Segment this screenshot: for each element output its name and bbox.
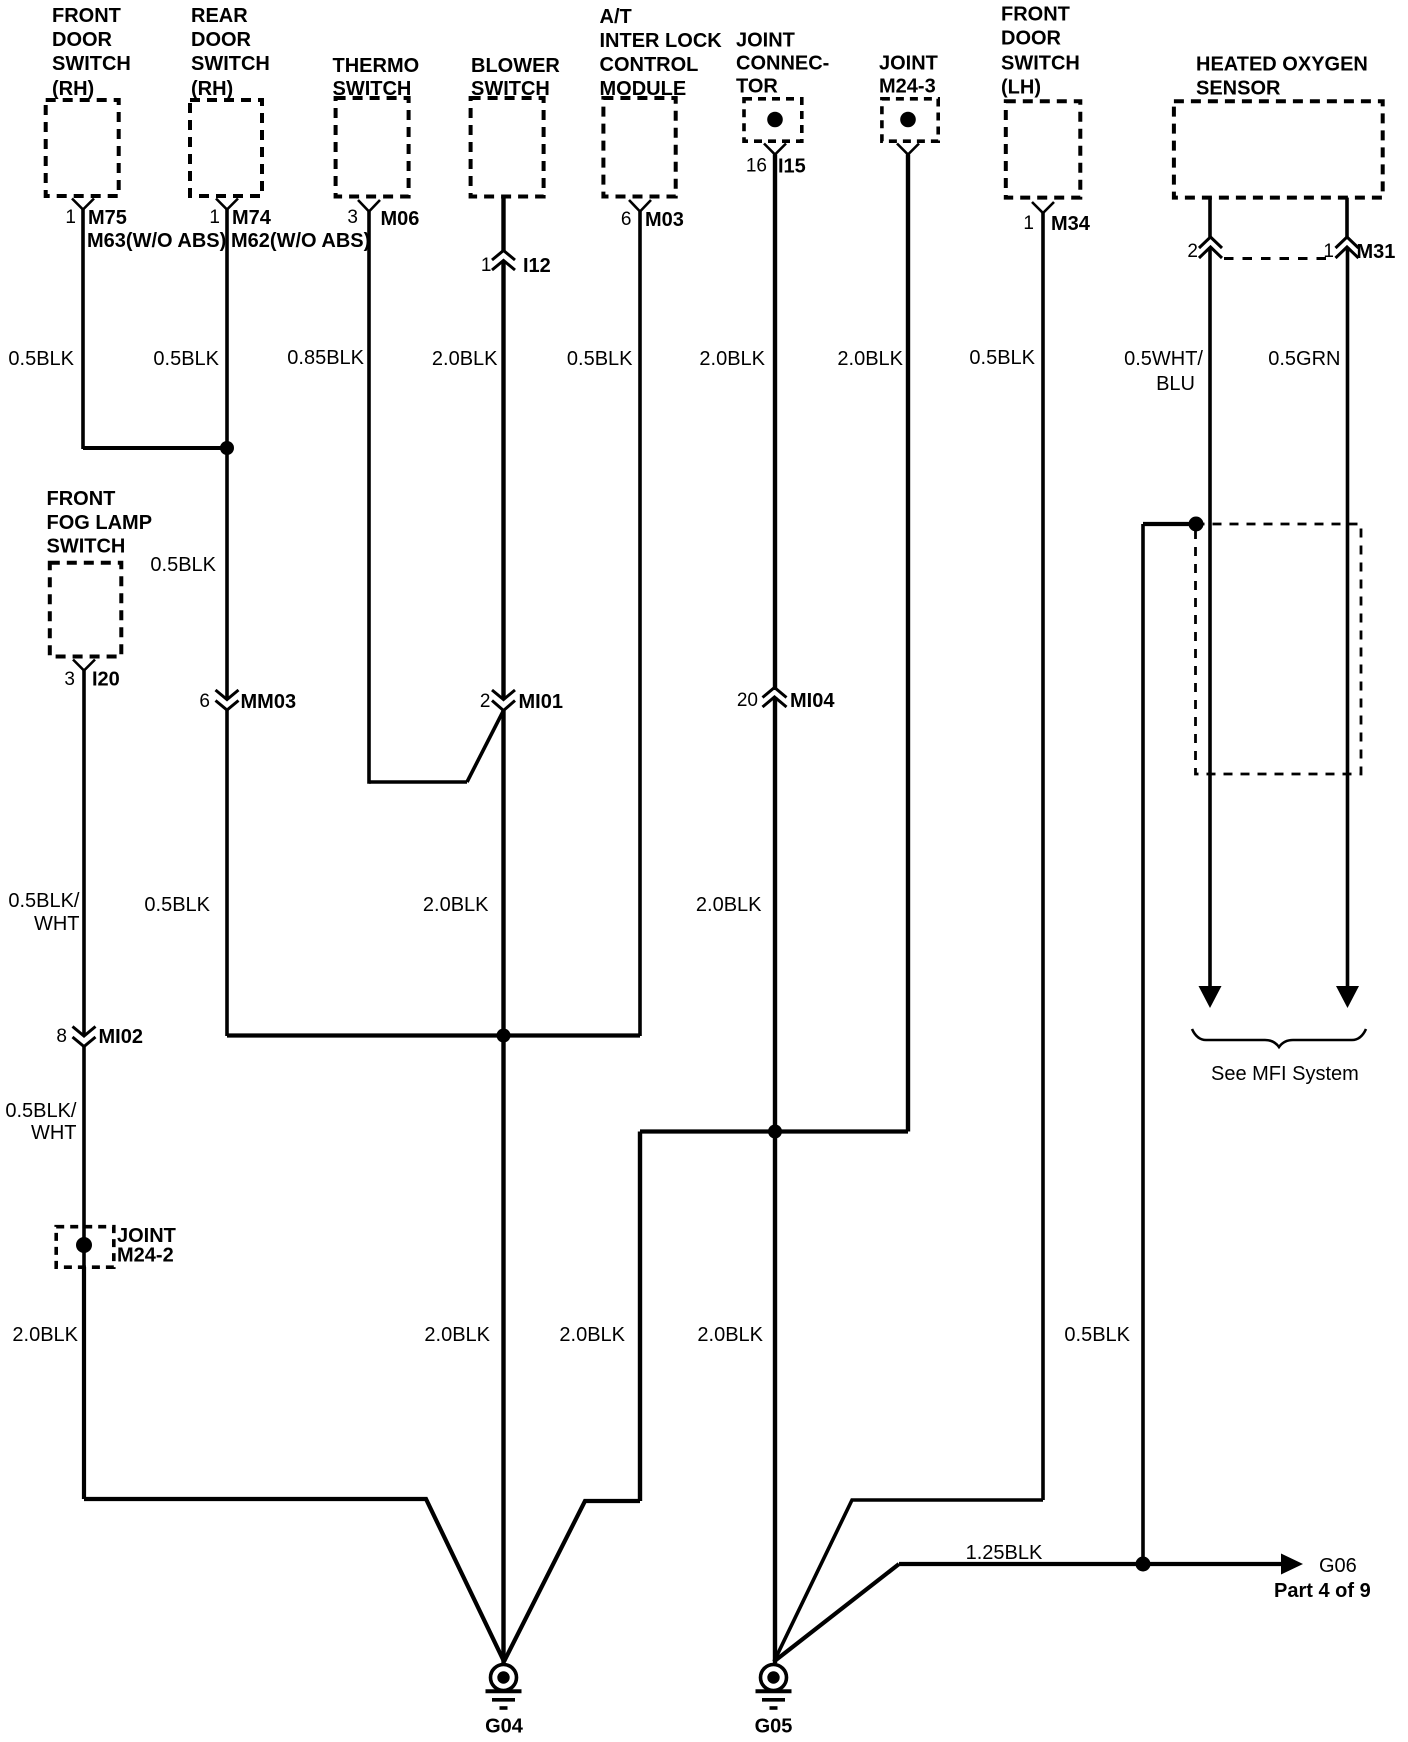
svg-text:MM03: MM03 [241,691,297,713]
brace see MFI system [1192,1029,1366,1047]
wire thermo horizontal jog [369,780,467,784]
svg-text:THERMO: THERMO [333,55,420,77]
svg-text:Part 4 of 9: Part 4 of 9 [1274,1580,1371,1602]
svg-text:FRONT: FRONT [1001,4,1070,26]
connector MI01 pin 2 [480,690,563,713]
wire horizontal y=1132 [640,1129,908,1133]
joint M24-3 title [879,53,938,98]
svg-text:M34: M34 [1051,213,1091,235]
svg-text:JOINT: JOINT [736,30,795,52]
connector MI04 pin 20 [737,688,835,713]
svg-text:BLOWER: BLOWER [471,55,560,77]
front fog lamp switch title [47,488,153,558]
junction dot blower at bus [497,1029,511,1043]
svg-text:FOG LAMP: FOG LAMP [47,512,153,534]
svg-text:(RH): (RH) [52,78,94,100]
ground G04 [485,1665,524,1738]
A/T module box [603,98,675,197]
arrow down right HO2S [1336,986,1359,1008]
arrow to G06 [1281,1554,1303,1575]
svg-text:2: 2 [1187,241,1198,262]
svg-text:SWITCH: SWITCH [191,53,270,75]
svg-text:M24-2: M24-2 [117,1245,174,1267]
connector symbol under M24-3 [897,144,919,155]
svg-text:0.5BLK/: 0.5BLK/ [8,890,80,912]
svg-text:0.5BLK: 0.5BLK [969,347,1035,369]
svg-text:1: 1 [1023,213,1034,234]
svg-text:0.5BLK: 0.5BLK [153,348,219,370]
svg-text:6: 6 [199,691,210,712]
wire joint M24-3 2.0BLK [906,155,910,1132]
svg-text:0.5BLK/: 0.5BLK/ [5,1100,77,1122]
joint M24-3 dot [900,112,916,128]
svg-text:CONTROL: CONTROL [600,54,699,76]
svg-text:BLU: BLU [1156,373,1195,395]
svg-text:CONNEC-: CONNEC- [736,53,829,75]
thermo switch box [336,98,409,197]
wire fog lamp 0.5BLK/WHT lower [82,1047,86,1268]
svg-text:2.0BLK: 2.0BLK [559,1324,625,1346]
connector M31 pin 2 [1187,237,1222,262]
connector MI02 pin 8 [56,1026,143,1048]
thermo switch title [333,55,420,100]
wire fog lamp 2.0BLK below joint M24-2 [82,1267,86,1499]
svg-text:A/T: A/T [600,6,632,28]
svg-text:M06: M06 [381,208,420,230]
junction dot 0.5BLK at 1.25BLK [1136,1557,1151,1572]
connector M31 pin 1 [1323,237,1395,263]
svg-text:G06: G06 [1319,1555,1357,1577]
svg-text:(RH): (RH) [191,78,233,100]
wire blower lower 2.0BLK to ground [501,711,505,1664]
svg-text:M63(W/O ABS): M63(W/O ABS) [87,230,226,252]
svg-text:2.0BLK: 2.0BLK [432,348,498,370]
svg-text:1: 1 [481,255,492,276]
wire jog into G04 right [504,1501,640,1662]
joint connector dot [767,112,783,128]
svg-text:M24-3: M24-3 [879,76,936,98]
svg-text:JOINT: JOINT [879,53,938,75]
svg-text:16: 16 [746,156,767,177]
svg-text:MI01: MI01 [519,691,563,713]
svg-text:MI04: MI04 [790,690,835,712]
svg-text:SWITCH: SWITCH [47,536,126,558]
svg-text:SENSOR: SENSOR [1196,78,1281,100]
svg-text:I15: I15 [778,156,806,178]
svg-text:FRONT: FRONT [47,488,116,510]
diagonal 1.25BLK into G05 [774,1564,899,1662]
wire HO2S left upper [1208,198,1212,237]
svg-text:FRONT: FRONT [52,5,121,27]
svg-text:WHT: WHT [34,913,80,935]
wire rear door switch 0.5BLK lower [225,710,229,1036]
rear door switch (RH) box [190,100,262,196]
wire joint connector lower to G05 [773,697,777,1663]
svg-text:G05: G05 [755,1716,793,1738]
wire HO2S right upper [1345,198,1349,237]
wire front door LH 0.5BLK [1041,213,1045,1500]
connector M74 pin 1 symbol [209,199,370,253]
svg-text:G04: G04 [485,1716,524,1738]
1.25BLK wire to G06 [899,1562,1284,1566]
connector M06 pin 3 [347,200,419,230]
svg-text:3: 3 [64,669,75,690]
dashed box below HO2S [1196,524,1362,774]
svg-text:I20: I20 [92,669,120,691]
svg-text:6: 6 [621,209,632,230]
svg-text:0.5BLK: 0.5BLK [1064,1324,1130,1346]
wire front door switch RH 0.5BLK [81,210,85,450]
joint connector title [736,30,829,98]
svg-text:I12: I12 [523,255,551,277]
svg-text:2.0BLK: 2.0BLK [697,1324,763,1346]
svg-text:3: 3 [347,207,358,228]
svg-text:0.5BLK: 0.5BLK [150,554,216,576]
svg-text:0.5BLK: 0.5BLK [144,894,210,916]
blower switch title [471,55,560,100]
connector I12 pin 1 [481,251,551,278]
front door switch (LH) box [1006,101,1081,197]
front door switch (RH) box [46,100,119,196]
svg-text:8: 8 [56,1026,67,1047]
wire horizontal bus y=1036 [227,1033,640,1037]
svg-text:0.5GRN: 0.5GRN [1268,348,1340,370]
joint M24-3 box [882,99,938,141]
front door switch (RH) title [52,5,131,100]
svg-text:M03: M03 [645,209,684,231]
wire thermo switch 0.85BLK [367,212,371,784]
svg-text:1: 1 [209,207,220,228]
wire thermo diagonal to MI01 [467,711,504,783]
svg-text:0.5BLK: 0.5BLK [8,348,74,370]
wire A/T 0.5BLK [638,212,642,1037]
blower switch box [471,98,544,197]
svg-text:M62(W/O ABS): M62(W/O ABS) [231,230,370,252]
dashed link between M31 pins [1224,257,1331,260]
connector MM03 pin 6 [199,690,296,713]
joint M24-2 box [56,1227,114,1268]
svg-text:TOR: TOR [736,76,778,98]
svg-text:REAR: REAR [191,5,248,27]
wire rear door switch 0.5BLK upper [225,210,229,700]
wire 0.5BLK branch vertical [1141,524,1145,1564]
svg-text:2.0BLK: 2.0BLK [837,348,903,370]
wire horizontal to rear door wire [83,446,227,450]
arrow down left HO2S [1199,986,1222,1008]
svg-text:WHT: WHT [31,1122,77,1144]
ground G05 [755,1665,793,1738]
svg-text:SWITCH: SWITCH [52,53,131,75]
wire HO2S left 0.5WHT/BLU [1208,247,1212,990]
front door switch (LH) title [1001,4,1080,99]
wire HO2S right 0.5GRN [1346,247,1350,990]
wire fog lamp 0.5BLK/WHT upper [82,671,86,1037]
A/T inter lock control module title [600,6,723,100]
svg-text:0.5BLK: 0.5BLK [567,348,633,370]
svg-text:2.0BLK: 2.0BLK [423,894,489,916]
svg-text:HEATED OXYGEN: HEATED OXYGEN [1196,54,1368,76]
connector M75 pin 1 symbol [65,199,226,253]
joint M24-2 title [117,1225,176,1267]
wire blower 2.0BLK [501,261,505,700]
svg-text:2.0BLK: 2.0BLK [699,348,765,370]
wire blower to I12 [501,197,505,251]
wire 0.5BLK branch horizontal [1143,522,1196,526]
svg-text:SWITCH: SWITCH [1001,53,1080,75]
joint connector box [744,99,802,141]
svg-text:0.5WHT/: 0.5WHT/ [1124,348,1203,370]
svg-text:2.0BLK: 2.0BLK [696,894,762,916]
svg-text:1: 1 [65,207,76,228]
svg-text:DOOR: DOOR [191,29,252,51]
svg-text:MI02: MI02 [99,1026,143,1048]
connector M03 pin 6 [621,200,684,231]
svg-text:(LH): (LH) [1001,77,1041,99]
heated oxygen sensor box [1174,101,1383,197]
svg-text:M31: M31 [1357,241,1396,263]
svg-text:2.0BLK: 2.0BLK [424,1324,490,1346]
wire vertical x=640 lower segment [638,1132,642,1502]
junction dot at dashed box corner [1189,517,1204,532]
wire jog into G04 left [84,1499,504,1662]
junction dot joint wire at y1132 [768,1125,782,1139]
junction dot at front/rear door wires [220,441,234,455]
connector I15 pin 16 [746,144,806,178]
svg-text:M74: M74 [232,207,272,229]
wire joint connector 2.0BLK [773,155,777,691]
svg-text:INTER LOCK: INTER LOCK [600,30,723,52]
svg-text:0.85BLK: 0.85BLK [287,347,364,369]
svg-text:2.0BLK: 2.0BLK [12,1324,78,1346]
connector M34 pin 1 [1023,202,1090,235]
svg-text:2: 2 [480,691,491,712]
svg-text:DOOR: DOOR [1001,28,1062,50]
rear door switch (RH) title [191,5,270,100]
svg-text:1.25BLK: 1.25BLK [966,1542,1043,1564]
svg-text:See MFI System: See MFI System [1211,1063,1359,1085]
svg-text:M75: M75 [88,207,127,229]
front fog lamp switch box [50,563,122,657]
svg-text:DOOR: DOOR [52,29,113,51]
joint M24-2 dot [76,1237,92,1253]
svg-text:20: 20 [737,690,758,711]
connector I20 pin 3 [64,660,119,691]
heated oxygen sensor title [1196,54,1368,100]
wire jog into G05 left [774,1500,1043,1662]
